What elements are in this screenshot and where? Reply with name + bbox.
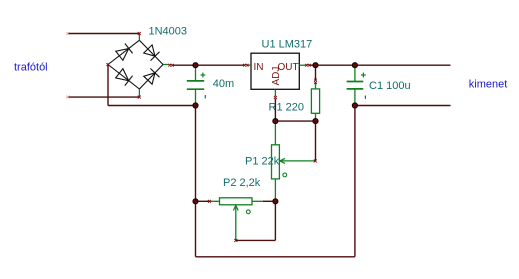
svg-text:trafótól: trafótól: [14, 61, 48, 73]
connection marker bridge top: [138, 32, 141, 35]
wire lower AC input: [68, 96, 140, 98]
connection marker OUT pin (double): [305, 64, 310, 67]
label kimenet: [469, 78, 508, 90]
junction node OUT: [313, 63, 318, 68]
op-amp U1 LM317 regulator box: [251, 53, 299, 89]
wire P2 left pin to ground drop: [196, 200, 211, 202]
capacitor C2 40m: [187, 65, 206, 105]
svg-text:C1 100u: C1 100u: [369, 80, 411, 92]
svg-text:P1 22k: P1 22k: [245, 156, 280, 168]
label P2 2,2k: [223, 177, 261, 189]
connection marker bridge right (double): [168, 64, 173, 67]
label R1 220: [269, 102, 304, 114]
wire ADJ node horizontal: [275, 120, 315, 122]
svg-text:ADJ: ADJ: [271, 67, 282, 86]
diode D4 (bottom to right): [144, 69, 160, 85]
label 1N4003: [149, 26, 188, 38]
label trafótól: [14, 61, 48, 73]
open end marker top AC wire: [66, 32, 69, 35]
junction node P2 left: [193, 199, 198, 204]
pin lead bridge bottom vertex: [138, 89, 140, 97]
junction node P2 right: [273, 199, 278, 204]
label P1 22k: [245, 156, 280, 168]
pin lead IN: [247, 64, 251, 66]
wire ground rise at x=354.9: [354, 106, 356, 257]
svg-text:40m: 40m: [213, 78, 234, 90]
pin lead ADJ: [274, 89, 276, 96]
svg-text:1N4003: 1N4003: [149, 26, 188, 38]
junction node C1 top: [352, 63, 357, 68]
wire top AC input: [68, 33, 140, 35]
resistor R1 220: [311, 83, 319, 121]
label U1 LM317: [262, 38, 313, 50]
svg-text:U1 LM317: U1 LM317: [262, 38, 313, 50]
junction node filter cap top: [193, 63, 198, 68]
wire P2 right pin to ADJ branch node: [263, 200, 275, 202]
connection marker IN pin (double): [243, 64, 248, 67]
wire P2 wiper to node under P1: [236, 201, 276, 240]
junction node filter cap bottom: [193, 103, 198, 108]
svg-text:kimenet: kimenet: [469, 78, 508, 90]
svg-text:R1 220: R1 220: [269, 102, 304, 114]
capacitor C1 100u: [347, 65, 366, 105]
junction node C1 bottom: [352, 103, 357, 108]
potentiometer P2 2,2k: [209, 198, 265, 241]
label 40m: [213, 78, 234, 90]
open end marker lower AC wire: [66, 96, 69, 99]
junction node ADJ: [273, 119, 278, 124]
connection marker ADJ pin: [274, 96, 277, 99]
connection marker P1 wiper: [314, 159, 317, 162]
pin lead OUT: [299, 64, 306, 66]
wire R1 bottom node down to P1 wiper: [315, 121, 317, 161]
pin label ADJ (rotated): [271, 67, 282, 86]
connection marker bridge bottom: [138, 96, 141, 99]
wire bottom return rail: [196, 256, 355, 258]
diode D1 (left to top): [116, 44, 133, 61]
bridge rectifier D1-D4 1N4003 diamond: [108, 40, 163, 89]
wire negative: left vertex down and right to C-filter: [108, 65, 196, 106]
wire ground drop at x=195.5: [195, 106, 197, 257]
wire output top rail (OUT pin to end): [309, 64, 450, 66]
pin label OUT: [278, 62, 299, 73]
pin label IN: [254, 62, 264, 73]
potentiometer P1 22k: [272, 121, 316, 201]
svg-text:P2 2,2k: P2 2,2k: [223, 177, 261, 189]
junction node R1 bottom: [313, 119, 318, 124]
pin lead bridge right vertex: [163, 64, 169, 66]
connection marker P2 left pin: [208, 200, 211, 203]
diode D3 (left to bottom): [116, 69, 133, 86]
wire ADJ pin down to ADJ node: [274, 99, 276, 121]
pin lead bridge top vertex: [138, 33, 140, 40]
connection marker bridge left: [107, 63, 110, 66]
wire output bottom rail: [355, 105, 451, 107]
wire bridge right vertex to IN pin: [172, 64, 245, 66]
label C1 100u: [369, 80, 411, 92]
svg-text:IN: IN: [254, 62, 264, 73]
connection marker P2 wiper: [234, 239, 237, 242]
diode D2 (top to right): [144, 45, 160, 61]
connection marker R1 top (double vertical): [314, 79, 317, 84]
wire OUT node down to R1: [315, 65, 317, 79]
